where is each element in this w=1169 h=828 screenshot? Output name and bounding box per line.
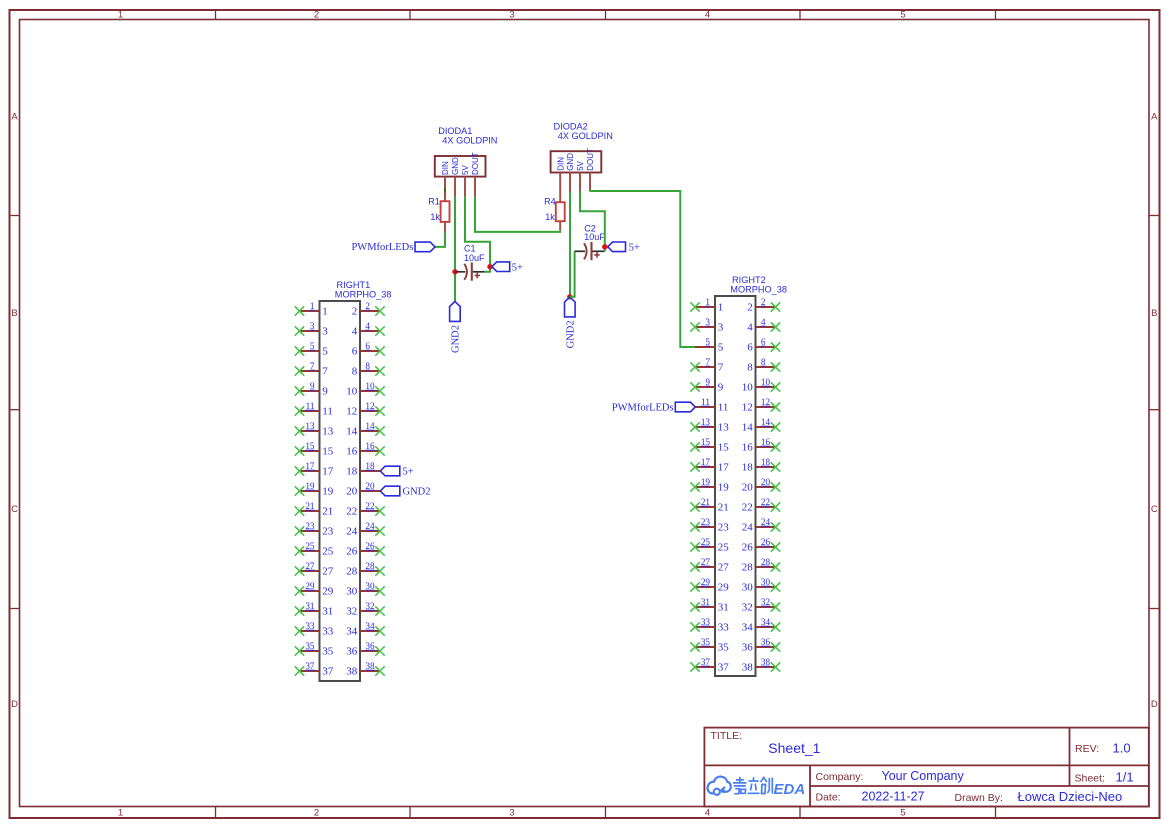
svg-text:16: 16 [761,437,771,447]
no-connect X pin 2 [375,306,384,315]
svg-text:11: 11 [322,405,333,417]
RIGHT1 pin 4 [352,321,385,337]
net flag 5+ [380,466,400,476]
svg-text:5: 5 [322,345,328,357]
svg-text:R1: R1 [428,196,440,206]
svg-text:GND: GND [566,153,575,171]
svg-text:3: 3 [509,10,514,21]
RIGHT2 pin 29 [690,577,729,593]
svg-text:7: 7 [705,357,710,367]
svg-text:38: 38 [742,661,754,673]
svg-text:20: 20 [365,481,375,491]
no-connect X pin 23 [295,526,304,535]
svg-text:B: B [1151,308,1157,319]
svg-text:13: 13 [718,421,730,433]
RIGHT2 pin 28 [742,557,781,573]
svg-text:6: 6 [747,341,753,353]
no-connect X pin 30 [771,582,780,591]
svg-text:17: 17 [305,461,315,471]
svg-text:Sheet_1: Sheet_1 [768,740,820,756]
svg-text:R4: R4 [544,197,556,207]
no-connect X pin 24 [375,526,384,535]
no-connect X pin 4 [771,322,780,331]
svg-text:GND: GND [451,157,460,175]
no-connect X pin 3 [295,326,304,335]
no-connect X pin 4 [375,326,384,335]
wire: C2 positive jog [604,247,606,252]
svg-text:31: 31 [701,597,711,607]
RIGHT2 pin 20 [742,477,781,493]
svg-text:27: 27 [718,561,730,573]
svg-text:DOUT: DOUT [471,152,480,175]
svg-text:18: 18 [742,461,754,473]
svg-text:27: 27 [322,565,334,577]
no-connect X pin 28 [375,566,384,575]
svg-text:MORPHO_38: MORPHO_38 [730,284,787,294]
no-connect X pin 12 [375,406,384,415]
no-connect X pin 24 [771,522,780,531]
no-connect X pin 26 [771,542,780,551]
svg-text:5+: 5+ [403,466,414,477]
no-connect X pin 27 [295,566,304,575]
svg-text:21: 21 [718,501,729,513]
RIGHT1 pin 25 [295,541,334,557]
no-connect X pin 21 [690,502,699,511]
svg-text:5: 5 [310,341,315,351]
RIGHT2 pin 3 [690,317,724,333]
no-connect X pin 8 [771,362,780,371]
svg-text:11: 11 [306,401,315,411]
svg-text:7: 7 [718,361,724,373]
svg-text:4: 4 [352,325,358,337]
no-connect X pin 8 [375,366,384,375]
DIODA1 pin 4 DOUT [471,152,480,196]
RIGHT2 pin 13 [690,417,729,433]
capacitor C1 (polarized 10uF) [455,244,485,281]
svg-text:33: 33 [305,621,315,631]
RIGHT2 pin 25 [690,537,729,553]
DIODA2 pin 1 DIN [556,157,565,202]
no-connect X pin 17 [690,462,699,471]
svg-text:1: 1 [322,305,328,317]
RIGHT2 pin 35 [690,637,729,653]
RIGHT1 pin 34 [346,621,385,637]
no-connect X pin 28 [771,562,780,571]
svg-text:C: C [11,504,18,515]
wire: DIODA2 DOUT to RIGHT2 pin 5 [590,191,695,347]
svg-text:20: 20 [346,485,358,497]
svg-text:13: 13 [305,421,315,431]
no-connect X pin 13 [295,426,304,435]
svg-text:19: 19 [305,481,315,491]
DIODA1 pin 2 GND [451,157,460,197]
svg-text:DIODA1: DIODA1 [438,126,472,136]
svg-text:10: 10 [761,377,771,387]
svg-text:DIN: DIN [441,161,450,175]
svg-text:32: 32 [761,597,771,607]
svg-text:GND2: GND2 [450,325,461,353]
connector DIODA1 (4X GOLDPIN) [435,126,498,177]
RIGHT2 pin 30 [742,577,781,593]
svg-text:15: 15 [305,441,315,451]
RIGHT1 pin 17 [295,461,334,477]
svg-text:5V: 5V [576,160,585,170]
no-connect X pin 15 [690,442,699,451]
svg-text:25: 25 [718,541,730,553]
junction node (C1 negative) [452,269,457,274]
RIGHT1 pin 14 [346,421,385,437]
svg-text:35: 35 [718,641,730,653]
svg-text:11: 11 [701,397,710,407]
svg-text:4: 4 [705,808,710,819]
svg-text:28: 28 [346,565,358,577]
svg-text:14: 14 [365,421,375,431]
svg-text:1: 1 [118,808,123,819]
svg-text:26: 26 [346,545,358,557]
no-connect X pin 13 [690,422,699,431]
no-connect X pin 2 [771,302,780,311]
RIGHT1 pin 6 [352,341,385,357]
RIGHT2 pin 17 [690,457,729,473]
RIGHT2 pin 34 [742,617,781,633]
svg-text:10uF: 10uF [584,232,605,242]
RIGHT2 pin 12 [742,397,781,413]
svg-text:38: 38 [761,657,771,667]
RIGHT1 pin 22 [346,501,385,517]
no-connect X pin 1 [690,302,699,311]
svg-text:4: 4 [365,321,370,331]
no-connect X pin 18 [771,462,780,471]
RIGHT1 pin 35 [295,641,334,657]
svg-text:31: 31 [305,601,315,611]
no-connect X pin 7 [295,366,304,375]
net flag 5+ (near C2) [608,242,640,253]
svg-text:24: 24 [346,525,358,537]
svg-text:DIN: DIN [556,157,565,171]
svg-text:14: 14 [761,417,771,427]
svg-text:21: 21 [305,501,315,511]
svg-text:10uF: 10uF [464,253,485,263]
no-connect X pin 14 [771,422,780,431]
svg-text:35: 35 [322,645,334,657]
svg-text:GND2: GND2 [403,486,431,497]
svg-text:31: 31 [718,601,729,613]
RIGHT2 pin 23 [690,517,729,533]
RIGHT1 pin 18 [346,461,414,477]
no-connect X pin 11 [295,406,304,415]
svg-text:9: 9 [718,381,724,393]
svg-text:4X GOLDPIN: 4X GOLDPIN [442,136,497,146]
no-connect X pin 25 [690,542,699,551]
RIGHT2 pin 24 [742,517,781,533]
svg-text:29: 29 [701,577,711,587]
RIGHT2 pin 32 [742,597,781,613]
svg-text:D: D [1151,699,1158,710]
svg-text:10: 10 [365,381,375,391]
no-connect X pin 32 [771,602,780,611]
svg-text:1: 1 [310,301,315,311]
svg-text:Drawn By:: Drawn By: [955,792,1003,804]
RIGHT1 pin 23 [295,521,334,537]
svg-text:2: 2 [352,305,358,317]
title block [704,728,1148,807]
svg-text:38: 38 [346,665,358,677]
svg-text:22: 22 [346,505,357,517]
RIGHT1 pin 33 [295,621,334,637]
svg-text:21: 21 [701,497,711,507]
no-connect X pin 10 [771,382,780,391]
no-connect X pin 37 [690,662,699,671]
svg-text:12: 12 [742,401,753,413]
no-connect X pin 33 [295,626,304,635]
svg-text:3: 3 [509,808,514,819]
no-connect X pin 31 [690,602,699,611]
svg-text:2: 2 [365,301,370,311]
svg-text:37: 37 [305,661,315,671]
junction node (GND2 / C2 negative) [567,294,572,299]
svg-text:23: 23 [305,521,315,531]
no-connect X pin 21 [295,506,304,515]
RIGHT1 pin 20 [346,481,430,497]
no-connect X pin 38 [771,662,780,671]
svg-text:C: C [1151,504,1158,515]
svg-text:8: 8 [365,361,370,371]
svg-text:2: 2 [747,301,753,313]
svg-text:34: 34 [365,621,375,631]
net flag GND2 (below C2) [565,297,577,349]
svg-text:9: 9 [310,381,315,391]
svg-text:19: 19 [718,481,730,493]
svg-text:EDA: EDA [774,781,806,798]
net flag PWMforLEDs (left) [351,242,435,253]
svg-text:26: 26 [365,541,375,551]
no-connect X pin 9 [690,382,699,391]
RIGHT2 pin 9 [690,377,724,393]
no-connect X pin 22 [375,506,384,515]
svg-text:25: 25 [322,545,334,557]
no-connect X pin 35 [690,642,699,651]
svg-text:Date:: Date: [816,792,841,804]
no-connect X pin 19 [295,486,304,495]
RIGHT1 pin 9 [295,381,329,397]
RIGHT1 pin 27 [295,561,334,577]
svg-text:PWMforLEDs: PWMforLEDs [351,242,413,253]
junction node (C1 positive / 5+) [487,264,492,269]
svg-text:GND2: GND2 [565,320,576,348]
no-connect X pin 29 [295,586,304,595]
RIGHT2 pin 15 [690,437,729,453]
svg-text:33: 33 [322,625,334,637]
svg-text:21: 21 [322,505,333,517]
no-connect X pin 16 [375,446,384,455]
no-connect X pin 3 [690,322,699,331]
RIGHT1 pin 16 [346,441,385,457]
svg-text:4: 4 [747,321,753,333]
svg-text:26: 26 [742,541,754,553]
svg-text:12: 12 [761,397,771,407]
RIGHT1 pin 3 [295,321,329,337]
no-connect X pin 6 [771,342,780,351]
svg-text:22: 22 [365,501,375,511]
wire: R1 to PWMforLEDs flag [435,232,445,247]
RIGHT2 pin 33 [690,617,729,633]
no-connect X pin 36 [375,646,384,655]
RIGHT2 pin 37 [690,657,729,673]
net flag GND2 [380,486,400,496]
RIGHT1 pin 37 [295,661,334,677]
svg-text:34: 34 [742,621,754,633]
svg-text:1: 1 [718,301,724,313]
svg-text:8: 8 [761,357,766,367]
svg-text:9: 9 [705,377,710,387]
svg-text:29: 29 [305,581,315,591]
RIGHT1 pin 12 [346,401,385,417]
RIGHT1 pin 11 [295,401,333,417]
svg-text:28: 28 [365,561,375,571]
svg-text:24: 24 [742,521,754,533]
no-connect X pin 20 [771,482,780,491]
RIGHT1 pin 28 [346,561,385,577]
RIGHT1 pin 2 [352,301,385,317]
svg-text:4: 4 [761,317,766,327]
DIODA2 pin 4 DOUT [586,148,595,191]
svg-text:20: 20 [761,477,771,487]
resistor R1 [428,192,449,232]
svg-text:Sheet:: Sheet: [1075,773,1105,785]
RIGHT2 pin 7 [690,357,724,373]
RIGHT1 pin 21 [295,501,334,517]
no-connect X pin 37 [295,666,304,675]
connector DIODA2 (4X GOLDPIN) [551,121,613,172]
svg-text:8: 8 [747,361,753,373]
no-connect X pin 25 [295,546,304,555]
DIODA1 pin 3 5V [461,165,470,197]
no-connect X pin 34 [375,626,384,635]
svg-text:1: 1 [118,10,123,21]
svg-text:17: 17 [701,457,711,467]
no-connect X pin 22 [771,502,780,511]
svg-text:27: 27 [305,561,315,571]
wire: DIODA1 5V to 5+ [465,197,490,267]
RIGHT2 pin 5 [695,337,724,353]
svg-text:Łowca Dzieci-Neo: Łowca Dzieci-Neo [1018,789,1123,804]
svg-text:1.0: 1.0 [1113,741,1131,756]
svg-text:13: 13 [322,425,334,437]
svg-text:28: 28 [761,557,771,567]
svg-text:3: 3 [718,321,724,333]
svg-text:34: 34 [761,617,771,627]
svg-text:7: 7 [322,365,328,377]
RIGHT2 pin 6 [747,337,780,353]
wire: DIODA2 GND down to GND2 [569,192,571,297]
RIGHT2 pin 14 [742,417,781,433]
svg-text:5: 5 [900,10,905,21]
svg-text:3: 3 [322,325,328,337]
RIGHT1 pin 24 [346,521,385,537]
no-connect X pin 27 [690,562,699,571]
svg-text:15: 15 [701,437,711,447]
RIGHT1 pin 38 [346,661,385,677]
RIGHT1 pin 1 [295,301,328,317]
no-connect X pin 36 [771,642,780,651]
no-connect X pin 19 [690,482,699,491]
svg-text:25: 25 [305,541,315,551]
svg-text:2: 2 [761,297,766,307]
svg-text:Company:: Company: [816,771,864,783]
svg-text:D: D [11,699,18,710]
svg-text:16: 16 [346,445,358,457]
no-connect X pin 10 [375,386,384,395]
wire: C1 to 5+ junction [485,267,490,272]
RIGHT2 pin 31 [690,597,729,613]
RIGHT1 pin 7 [295,361,329,377]
RIGHT2 pin 4 [747,317,780,333]
no-connect X pin 35 [295,646,304,655]
svg-text:7: 7 [310,361,315,371]
svg-text:5V: 5V [461,165,470,175]
svg-text:TITLE:: TITLE: [711,730,743,742]
svg-text:17: 17 [322,465,334,477]
no-connect X pin 26 [375,546,384,555]
svg-text:6: 6 [761,337,766,347]
svg-text:22: 22 [761,497,771,507]
no-connect X pin 1 [295,306,304,315]
RIGHT1 pin 36 [346,641,385,657]
no-connect X pin 33 [690,622,699,631]
svg-text:1k: 1k [430,212,440,222]
svg-text:22: 22 [742,501,753,513]
svg-text:11: 11 [718,401,729,413]
wire: DIODA2 5V to 5+ [580,192,605,247]
svg-text:5: 5 [900,808,905,819]
svg-text:17: 17 [718,461,730,473]
svg-text:36: 36 [346,645,358,657]
svg-text:25: 25 [701,537,711,547]
svg-text:29: 29 [322,585,334,597]
svg-text:1k: 1k [545,212,555,222]
wire: C2 negative to GND2 [570,251,575,296]
svg-text:23: 23 [718,521,730,533]
svg-text:DOUT: DOUT [586,148,595,171]
DIODA1 pin 1 DIN [441,161,450,197]
svg-text:10: 10 [742,381,754,393]
no-connect X pin 31 [295,606,304,615]
svg-text:29: 29 [718,581,730,593]
RIGHT2 pin 22 [742,497,781,513]
svg-text:33: 33 [701,617,711,627]
svg-text:A: A [11,112,18,123]
RIGHT2 pin 18 [742,457,781,473]
connector RIGHT2 (MORPHO_38) [715,275,787,676]
svg-text:36: 36 [742,641,754,653]
svg-text:30: 30 [742,581,754,593]
no-connect X pin 29 [690,582,699,591]
svg-text:2: 2 [314,10,319,21]
RIGHT2 pin 38 [742,657,781,673]
svg-text:30: 30 [761,577,771,587]
svg-text:37: 37 [701,657,711,667]
no-connect X pin 17 [295,466,304,475]
wire: DIODA1 DOUT to R4 [475,197,560,232]
RIGHT1 pin 32 [346,601,385,617]
svg-text:24: 24 [365,521,375,531]
net flag GND2 (below C1) [450,301,462,353]
svg-text:4X GOLDPIN: 4X GOLDPIN [558,131,613,141]
svg-text:36: 36 [761,637,771,647]
svg-text:5+: 5+ [512,262,523,273]
svg-text:A: A [1151,112,1158,123]
DIODA2 pin 3 5V [576,160,585,191]
